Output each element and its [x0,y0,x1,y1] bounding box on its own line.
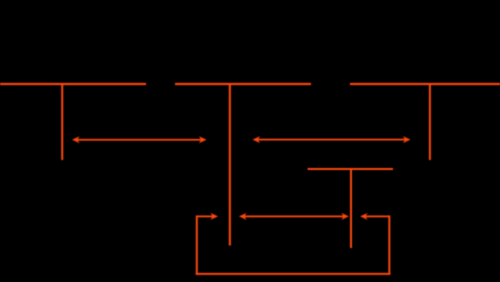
dim left L vertical [196,215,198,274]
dim left shaft [196,216,213,218]
axis segment A [0,83,146,85]
arrow A1 left head [72,136,80,143]
axis segment C [350,83,500,85]
tick T3 [429,84,431,160]
tick T1 [61,84,63,160]
axis segment B [175,83,311,85]
dim mid left head (points left at T2) [239,213,247,220]
dim left head (points right at T2) [211,213,219,220]
dim right shaft [366,216,390,218]
arrow A2 shaft [257,139,406,141]
tick T2 [229,84,231,246]
arrow A1 shaft [77,139,203,141]
dim right head (points left at stem) [360,213,368,220]
T-bar horizontal [308,168,393,170]
dim mid right head (points right at stem) [341,213,349,220]
T-stem vertical [350,169,352,248]
bottom bracket horizontal [196,273,390,275]
dim mid shaft [244,216,345,218]
dim right L vertical [388,215,390,274]
arrow A2 left head [253,136,261,143]
arrow A1 right head [199,136,207,143]
arrow A2 right head [403,136,411,143]
